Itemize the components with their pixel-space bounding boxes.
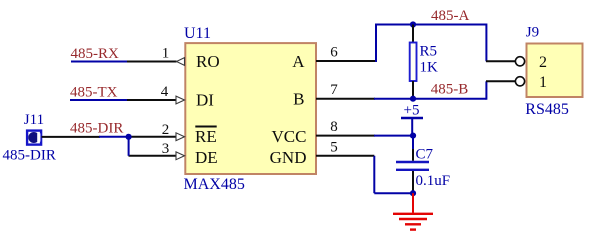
wire down to J9 pin 2 [485, 24, 487, 62]
pin 2 of J9 [486, 60, 515, 62]
ground [412, 193, 414, 213]
svg-text:4: 4 [161, 84, 169, 100]
wire 485-DIR [99, 136, 130, 138]
svg-text:485-B: 485-B [431, 82, 469, 98]
connector J11 [27, 131, 41, 145]
svg-text:GND: GND [270, 148, 307, 167]
svg-text:+5: +5 [404, 102, 420, 118]
svg-text:3: 3 [162, 141, 170, 157]
junction on 485-DIR [126, 134, 132, 140]
pin 1 (RO) [127, 61, 177, 63]
svg-text:485-RX: 485-RX [71, 46, 120, 62]
wire 485-A horizontal [375, 24, 486, 26]
svg-text:485-DIR: 485-DIR [3, 148, 56, 164]
pin 4 (DI) [127, 99, 177, 101]
svg-text:B: B [293, 89, 304, 108]
svg-text:MAX485: MAX485 [184, 176, 245, 193]
wire GND pin to ground column [373, 156, 375, 193]
svg-text:5: 5 [330, 139, 338, 155]
svg-text:A: A [292, 52, 305, 71]
capacitor C7 [412, 136, 414, 150]
svg-text:8: 8 [330, 119, 338, 135]
junction at R5 bottom [410, 96, 416, 102]
pin of J11 [42, 136, 101, 138]
pin 2 (RE) [129, 136, 177, 138]
svg-text:485-DIR: 485-DIR [70, 121, 123, 137]
svg-text:DE: DE [195, 148, 218, 167]
svg-text:485-TX: 485-TX [70, 84, 118, 100]
svg-text:7: 7 [330, 82, 338, 98]
svg-text:485-A: 485-A [431, 8, 469, 24]
junction at R5 top [410, 21, 416, 27]
junction above ground [410, 190, 416, 196]
wire 485-TX [70, 99, 127, 101]
svg-text:RO: RO [196, 52, 220, 71]
svg-text:U11: U11 [184, 25, 211, 42]
pin 7 (B) [316, 98, 375, 100]
pin 3 (DE) [129, 155, 177, 157]
svg-text:J9: J9 [526, 24, 539, 40]
svg-text:J11: J11 [24, 112, 44, 128]
svg-text:RE: RE [195, 127, 217, 146]
svg-text:1: 1 [539, 74, 547, 91]
svg-text:R5: R5 [420, 44, 438, 60]
pin 1 of J9 [486, 80, 515, 82]
svg-text:1K: 1K [420, 60, 439, 76]
connector J9 [527, 44, 583, 98]
svg-text:C7: C7 [416, 147, 434, 163]
pin 8 (VCC) [316, 135, 375, 137]
wire 485-B horizontal [374, 98, 486, 100]
wire VCC to +5/C7 column [374, 135, 414, 137]
svg-text:6: 6 [330, 45, 338, 61]
pin 5 (GND) [316, 155, 374, 157]
wire up to J9 pin 1 [485, 81, 487, 99]
wire junction to pin 3 [128, 137, 130, 156]
wire A vertical up [375, 25, 377, 63]
svg-text:1: 1 [162, 46, 170, 62]
IC U11 (MAX485 transceiver body) [185, 43, 316, 174]
svg-text:0.1uF: 0.1uF [416, 173, 451, 189]
svg-text:VCC: VCC [272, 127, 307, 146]
resistor R5 [412, 25, 414, 43]
svg-text:RS485: RS485 [525, 101, 569, 118]
junction at VCC [410, 133, 416, 139]
svg-text:DI: DI [196, 91, 214, 110]
svg-text:2: 2 [162, 122, 170, 138]
pin 6 (A) [316, 60, 376, 62]
svg-text:2: 2 [539, 54, 547, 71]
wire 485-RX [71, 61, 127, 63]
